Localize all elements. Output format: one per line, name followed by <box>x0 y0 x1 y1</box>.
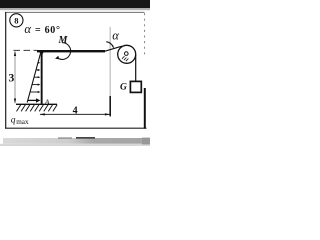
column <box>41 52 43 104</box>
svg-text:= 60°: = 60° <box>35 25 61 36</box>
load arrow 5 <box>30 91 38 93</box>
ground hatching <box>17 105 58 112</box>
pulley hub <box>125 52 129 56</box>
rope down from pulley <box>135 55 137 82</box>
load envelope diagonal <box>27 52 41 103</box>
load arrow 2 <box>36 69 38 71</box>
frame bottom border <box>5 127 147 129</box>
load arrow 3 <box>34 76 38 78</box>
dim 4 horizontal line <box>40 113 110 115</box>
dim 3 vertical line <box>14 52 16 103</box>
problem number circle 8 <box>10 14 23 27</box>
joint dot <box>40 50 44 54</box>
svg-text:G: G <box>120 83 127 93</box>
frame right border (solid lower) <box>144 88 146 129</box>
svg-text:max: max <box>16 118 29 126</box>
svg-text:q: q <box>11 116 16 126</box>
bottom grey page band <box>3 138 150 144</box>
svg-text:3: 3 <box>9 72 15 84</box>
dim3 bottom arrow <box>14 99 16 104</box>
moment arc <box>57 43 70 60</box>
frame top border <box>5 11 145 13</box>
angle alpha arc at beam end <box>106 42 113 48</box>
svg-text:8: 8 <box>14 15 18 25</box>
svg-text:α: α <box>24 22 31 36</box>
right extension line black <box>109 96 111 116</box>
beam <box>37 50 105 52</box>
dim4 right arrow <box>105 113 110 115</box>
svg-text:α: α <box>112 28 119 42</box>
frame left border <box>5 12 7 129</box>
dim3 extension line (top left) <box>14 49 38 51</box>
pulley hub hatching <box>122 56 128 61</box>
right extension line grey <box>109 27 111 96</box>
dim3 top arrow <box>14 51 16 56</box>
ground line at A <box>16 103 57 105</box>
frame right border (faint dashed upper) <box>144 13 146 57</box>
svg-text:A: A <box>43 97 50 107</box>
load arrow 6 (bottom, bold) <box>28 99 37 101</box>
dim4 left arrow <box>39 113 44 115</box>
load arrow 1 <box>37 62 39 64</box>
weight block <box>130 81 141 92</box>
svg-text:4: 4 <box>73 105 78 116</box>
top black page bar <box>0 0 150 8</box>
pulley B <box>118 45 136 63</box>
rope from beam to pulley <box>105 46 122 51</box>
load arrow 4 <box>32 84 38 86</box>
moment arrowhead <box>55 56 59 60</box>
